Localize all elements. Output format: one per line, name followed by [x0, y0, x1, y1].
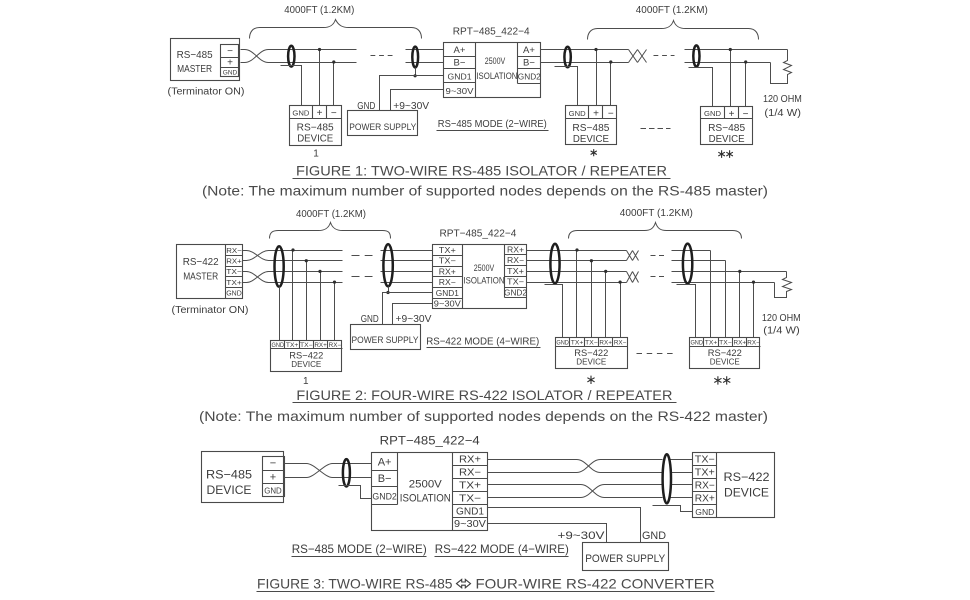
svg-text:DEVICE: DEVICE — [297, 134, 333, 145]
svg-text:9~30V: 9~30V — [454, 519, 486, 530]
svg-text:RS−485: RS−485 — [297, 123, 334, 134]
label 4000FT (1.2KM) Fig1 left — [284, 5, 354, 16]
label RPT-485_422-4 Fig2 — [439, 227, 516, 239]
svg-text:ISOLATION: ISOLATION — [464, 276, 505, 286]
svg-text:RS−422: RS−422 — [183, 256, 219, 268]
svg-text:FIGURE 3: TWO-WIRE RS-485: FIGURE 3: TWO-WIRE RS-485 — [257, 575, 453, 591]
shield tick to GND1 line Fig2 — [386, 287, 389, 295]
svg-text:DEVICE: DEVICE — [576, 358, 606, 367]
RS-485 master box Fig1 — [171, 39, 240, 81]
label (Terminator ON) Fig2 — [172, 305, 249, 316]
tap wire to device ** TX- Fig2 — [725, 261, 727, 338]
svg-text:TX+: TX+ — [571, 341, 584, 347]
svg-text:GND1: GND1 — [448, 72, 472, 82]
svg-text:+: + — [593, 109, 599, 120]
terminating resistor R 120 ohm Fig2 — [775, 272, 792, 298]
RS-485 device 1 box Fig1 — [290, 106, 342, 146]
svg-text:RX−: RX− — [747, 341, 760, 347]
svg-text:RX+: RX+ — [695, 494, 715, 505]
tap wire to device ** RX+ Fig2 — [738, 270, 741, 338]
svg-text:POWER SUPPLY: POWER SUPPLY — [349, 122, 417, 133]
shield ellipse Fig1 cable2 far — [693, 45, 699, 66]
wires resume far segment Fig1 — [685, 50, 788, 63]
svg-text:B−: B− — [454, 58, 466, 69]
twisted pair symbol XX pair1 Fig2 — [627, 251, 639, 261]
svg-text:RPT−485_422−4: RPT−485_422−4 — [439, 227, 516, 239]
RS-422 device box Fig3 — [693, 453, 775, 518]
svg-text:1: 1 — [303, 376, 309, 387]
label RS-485 MODE (2-WIRE) Fig3 — [292, 542, 427, 557]
RS-485 device box Fig3 — [202, 452, 284, 503]
svg-text:(Terminator ON): (Terminator ON) — [168, 87, 245, 98]
repeater left terminal column TX+,TX-,RX+,RX-,GND1,9~30V Fig2 — [433, 245, 463, 309]
svg-text:RS−485 MODE (2−WIRE): RS−485 MODE (2−WIRE) — [292, 542, 427, 556]
shield ellipse Fig2 cable1 repeater side — [383, 244, 392, 286]
shield drain to device * GND — [555, 67, 578, 106]
master terminal strip (minus,plus,GND) Fig1 — [221, 45, 239, 77]
svg-text:−: − — [331, 108, 337, 119]
svg-text:TX−: TX− — [507, 278, 524, 287]
RS-485 device * box Fig1 — [566, 106, 617, 146]
repeater U3 RPT-485_422-4 box Fig3 — [372, 453, 488, 531]
shield ellipse Fig1 cable1 — [288, 46, 294, 67]
svg-text:MASTER: MASTER — [177, 63, 212, 75]
repeater right terminal column RX+,RX-,TX+,TX-,GND1,9~30V Fig3 — [453, 453, 488, 531]
master terminal strip RX-,RX+,TX-,TX+,GND Fig2 — [226, 245, 243, 299]
svg-text:TX−: TX− — [719, 341, 732, 347]
twisted pair TX from master Fig2 — [243, 272, 343, 283]
output pair RX with crossover Fig3 — [488, 460, 663, 473]
svg-text:(1/4 W): (1/4 W) — [764, 108, 801, 119]
svg-text:TX+: TX+ — [439, 246, 456, 255]
label RPT-485_422-4 Fig3 — [380, 433, 480, 447]
svg-text:2500V: 2500V — [474, 263, 495, 273]
svg-text:+9~30V: +9~30V — [393, 100, 429, 112]
svg-text:FIGURE 2: FOUR-WIRE RS-422 ISO: FIGURE 2: FOUR-WIRE RS-422 ISOLATOR / RE… — [296, 387, 672, 403]
tap wire to device * plus — [594, 48, 597, 106]
tap wire to device 1 TX- Fig2 — [305, 259, 308, 340]
label ** below device Fig1 — [718, 150, 733, 158]
svg-text:RX−: RX− — [329, 343, 342, 349]
svg-text:TX−: TX− — [695, 455, 715, 466]
repeater right terminal column A+,B-,GND2 — [518, 43, 542, 84]
brace Fig1 left cable length — [250, 20, 422, 39]
RS-422 device * box Fig2 — [556, 338, 628, 369]
svg-text:DEVICE: DEVICE — [207, 483, 252, 497]
svg-text:RX+: RX+ — [226, 257, 242, 266]
label (Terminator ON) Fig1 — [168, 87, 245, 98]
svg-text:9~30V: 9~30V — [446, 86, 474, 96]
svg-text:GND2: GND2 — [518, 72, 541, 82]
svg-text:GND: GND — [357, 100, 375, 112]
svg-text:GND: GND — [556, 341, 569, 347]
brace Fig2 left cable length — [270, 223, 391, 239]
shield ellipse Fig2 cable1 — [275, 246, 284, 287]
svg-text:ISOLATION: ISOLATION — [476, 71, 517, 81]
svg-text:4000FT (1.2KM): 4000FT (1.2KM) — [296, 209, 366, 220]
RS-422 device ** box Fig2 — [690, 338, 761, 369]
label RS-422 MODE (4-WIRE) Fig2 — [426, 335, 540, 347]
RS-422 device 1 box Fig2 — [271, 341, 343, 372]
GND1 wire to power supply Fig3 — [488, 508, 641, 543]
svg-text:DEVICE: DEVICE — [573, 134, 609, 145]
svg-text:+: + — [729, 109, 735, 120]
svg-text:RPT−485_422−4: RPT−485_422−4 — [453, 26, 530, 38]
svg-text:DEVICE: DEVICE — [710, 358, 740, 367]
label +9~30V psu Fig1 — [393, 100, 429, 112]
svg-text:GND: GND — [264, 487, 282, 496]
label RS-422 MODE (4-WIRE) Fig3 — [435, 542, 569, 557]
svg-text:RPT−485_422−4: RPT−485_422−4 — [380, 433, 480, 447]
svg-text:RX−: RX− — [226, 246, 242, 255]
svg-text:RX+: RX+ — [507, 246, 524, 255]
GND wire from power supply to GND1 — [380, 76, 444, 111]
label 1 below device Fig1 — [313, 148, 319, 159]
twisted pair RX from master Fig2 — [243, 251, 343, 261]
+9~30V wire from power supply Fig2 — [393, 304, 433, 325]
label 2500V ISOLATION Fig3 — [400, 479, 451, 505]
tap wire to device 1 RX+ Fig2 — [318, 270, 321, 341]
svg-text:RX+: RX+ — [314, 343, 327, 349]
shield drain to device 1 GND Fig2 — [279, 287, 281, 341]
svg-text:POWER SUPPLY: POWER SUPPLY — [352, 335, 420, 346]
label 120 OHM Fig1 — [763, 94, 802, 105]
label (1/4 W) Fig2 — [763, 326, 800, 337]
repeater left terminal column A+,B-,GND2 Fig3 — [372, 453, 398, 505]
svg-text:9~30V: 9~30V — [434, 300, 462, 309]
cable break dashes pair1 Fig2 right — [651, 255, 665, 257]
tap wire to device ** minus — [744, 60, 747, 106]
svg-text:B−: B− — [523, 58, 535, 69]
svg-text:1: 1 — [313, 148, 319, 159]
svg-text:RS−422: RS−422 — [724, 470, 770, 484]
tap wire to device * minus — [609, 60, 612, 105]
shield drain to device ** GND Fig2 — [677, 285, 696, 338]
tap wire to device * TX- Fig2 — [590, 259, 593, 337]
cable break dashes pair2 Fig2 right — [651, 276, 665, 278]
svg-text:RS−485: RS−485 — [206, 468, 252, 482]
label GND psu Fig3 — [642, 530, 666, 542]
svg-text:RS−485: RS−485 — [177, 49, 213, 61]
svg-text:TX+: TX+ — [507, 267, 524, 276]
repeater U1 RPT-485_422-4 box Fig1 — [444, 43, 541, 98]
svg-text:FOUR-WIRE RS-422 CONVERTER: FOUR-WIRE RS-422 CONVERTER — [476, 575, 715, 591]
shield drain to device * GND Fig2 — [545, 285, 563, 338]
RS-422 master box Fig2 — [177, 245, 243, 299]
svg-text:A+: A+ — [378, 457, 392, 469]
tap wire to device 1 RX- Fig2 — [333, 281, 336, 341]
shield drain to device GND Fig3 — [653, 506, 693, 512]
svg-text:TX−: TX− — [439, 257, 456, 266]
shield drain to device ** GND — [689, 68, 713, 107]
svg-text:+9~30V: +9~30V — [396, 313, 432, 325]
svg-text:TX−: TX− — [459, 493, 481, 504]
svg-text:FIGURE 1: TWO-WIRE RS-485 ISOL: FIGURE 1: TWO-WIRE RS-485 ISOLATOR / REP… — [296, 163, 667, 179]
tap wire to device ** plus — [729, 48, 732, 107]
GND wire from power supply to GND1 Fig2 — [383, 293, 433, 325]
svg-text:(1/4 W): (1/4 W) — [763, 326, 800, 337]
repeater right terminal column RX+,RX-,TX+,TX-,GND2 Fig2 — [504, 245, 527, 298]
svg-text:4000FT (1.2KM): 4000FT (1.2KM) — [284, 5, 354, 16]
svg-text:GND: GND — [272, 343, 285, 349]
svg-text:−: − — [743, 109, 749, 120]
svg-text:120 OHM: 120 OHM — [763, 94, 802, 105]
svg-text:GND: GND — [642, 530, 666, 542]
repeater U2 RPT-485_422-4 box Fig2 — [433, 245, 527, 309]
svg-text:RS−422 MODE (4−WIRE): RS−422 MODE (4−WIRE) — [435, 542, 569, 556]
RS-485 device ** box Fig1 — [701, 107, 753, 146]
svg-text:GND: GND — [569, 109, 586, 118]
continuation dashes between device * and ** Fig1 — [641, 128, 671, 130]
svg-text:RX−: RX− — [459, 468, 481, 479]
label (1/4 W) Fig1 — [764, 108, 801, 119]
label 4000FT (1.2KM) Fig1 right — [636, 5, 708, 16]
svg-text:RS−485: RS−485 — [708, 123, 745, 134]
wires resume to repeater Fig1 — [406, 50, 444, 63]
output wires RX+,RX-,TX+,TX- Fig2 — [527, 251, 627, 283]
tap wire to device * TX+ Fig2 — [575, 248, 578, 337]
svg-text:TX+: TX+ — [286, 343, 299, 349]
svg-text:GND1: GND1 — [436, 289, 459, 298]
svg-text:TX−: TX− — [300, 343, 313, 349]
svg-text:A+: A+ — [523, 45, 535, 56]
tap wire to device * RX- Fig2 — [619, 281, 622, 338]
shield ellipse Fig2 cable2 — [550, 244, 559, 284]
svg-text:4000FT (1.2KM): 4000FT (1.2KM) — [636, 5, 708, 16]
twisted pair symbol XX pair2 Fig2 — [627, 272, 639, 283]
shield drain to GND2 Fig3 — [339, 486, 372, 499]
svg-text:GND2: GND2 — [504, 288, 527, 297]
svg-text:(Note: The maximum number of s: (Note: The maximum number of supported n… — [199, 408, 768, 424]
svg-text:4000FT (1.2KM): 4000FT (1.2KM) — [620, 208, 693, 219]
svg-text:ISOLATION: ISOLATION — [400, 493, 451, 505]
svg-text:TX+: TX+ — [695, 468, 715, 479]
svg-text:RX−: RX− — [614, 341, 627, 347]
svg-text:+9~30V: +9~30V — [558, 530, 606, 542]
tap wire to device ** TX+ Fig2 — [710, 251, 712, 338]
shield ellipse Fig1 cable1 repeater side — [412, 47, 418, 68]
label 4000FT (1.2KM) Fig2 left — [296, 209, 366, 220]
label +9~30V psu Fig2 — [396, 313, 432, 325]
device terminal strip minus,plus,GND Fig3 — [263, 457, 285, 497]
wires resume far segment Fig2 — [672, 251, 787, 283]
label GND psu Fig1 — [357, 100, 375, 112]
tap wire to device * RX+ Fig2 — [604, 270, 607, 338]
twisted pair from device Fig3 — [284, 464, 372, 478]
label GND psu Fig2 — [361, 313, 379, 325]
svg-text:+: + — [317, 108, 323, 119]
svg-text:A+: A+ — [454, 45, 466, 56]
figure 1 title — [293, 163, 671, 179]
svg-text:RS−485: RS−485 — [572, 123, 609, 134]
cable break dashes pair1 Fig2 — [352, 255, 373, 257]
svg-text:RX+: RX+ — [439, 267, 456, 276]
wires into device Fig3 — [671, 460, 693, 498]
svg-text:+: + — [270, 472, 276, 484]
svg-text:GND2: GND2 — [372, 492, 397, 503]
output pair TX with crossover Fig3 — [488, 485, 663, 498]
figure 2 note — [199, 408, 768, 424]
shield ellipse Fig2 cable2 far — [683, 244, 692, 284]
figure 2 title — [293, 387, 677, 403]
label 2500V ISOLATION Fig1 — [476, 56, 517, 81]
label * below device Fig2 — [587, 376, 594, 384]
label ** below device Fig2 — [714, 376, 730, 384]
power supply box Fig1 — [348, 111, 418, 136]
svg-text:(Terminator ON): (Terminator ON) — [172, 305, 249, 316]
figure 1 note — [202, 183, 768, 199]
label * below device Fig1 — [591, 149, 597, 156]
svg-text:GND1: GND1 — [456, 506, 484, 517]
svg-text:−: − — [270, 458, 276, 470]
power supply box Fig3 — [583, 543, 669, 571]
output wires A+ B- Fig1 — [541, 50, 629, 63]
svg-text:TX−: TX− — [226, 267, 242, 276]
cable break dashes pair2 Fig2 — [352, 276, 373, 278]
label 120 OHM Fig2 — [762, 313, 801, 324]
power supply box Fig2 — [351, 325, 421, 350]
svg-text:RX+: RX+ — [459, 455, 481, 466]
svg-text:TX+: TX+ — [226, 278, 242, 287]
+9~30V wire from power supply — [391, 90, 444, 111]
svg-text:GND: GND — [695, 507, 714, 517]
svg-text:RX−: RX− — [695, 481, 715, 492]
svg-text:DEVICE: DEVICE — [709, 134, 745, 145]
svg-text:(Note: The maximum number of s: (Note: The maximum number of supported n… — [202, 183, 768, 199]
svg-text:POWER SUPPLY: POWER SUPPLY — [585, 553, 666, 565]
svg-text:120 OHM: 120 OHM — [762, 313, 801, 324]
tap wire to device 1 minus terminal — [332, 60, 335, 105]
tap wire to device 1 plus terminal — [318, 48, 321, 106]
svg-text:GND: GND — [704, 109, 721, 118]
label 1 below device Fig2 — [303, 376, 309, 387]
wire twisted pair from master Fig1 — [241, 50, 357, 63]
svg-text:−: − — [608, 109, 614, 120]
svg-text:GND: GND — [226, 289, 242, 298]
shield drain wire to device 1 GND — [281, 66, 302, 106]
svg-text:GND: GND — [690, 341, 703, 347]
label 4000FT (1.2KM) Fig2 right — [620, 208, 693, 219]
svg-text:TX+: TX+ — [705, 341, 718, 347]
shield tick to GND1 line — [414, 68, 417, 78]
svg-text:TX−: TX− — [585, 341, 598, 347]
label +9~30V psu Fig3 — [558, 530, 606, 542]
svg-text:MASTER: MASTER — [183, 271, 218, 283]
device terminal strip TX-,TX+,RX-,RX+,GND Fig3 — [693, 453, 717, 518]
cable break dashes Fig1 cable2 — [654, 55, 675, 57]
svg-text:TX+: TX+ — [459, 481, 481, 492]
label RS-485 MODE (2-WIRE) Fig1 — [437, 118, 549, 131]
svg-text:GND: GND — [361, 313, 379, 325]
svg-text:GND: GND — [223, 70, 238, 77]
svg-text:GND: GND — [292, 108, 309, 117]
svg-text:DEVICE: DEVICE — [291, 360, 321, 369]
shield ellipse Fig3 cable1 — [343, 459, 350, 486]
svg-text:RX+: RX+ — [734, 341, 747, 347]
brace Fig2 right cable length — [569, 223, 742, 239]
svg-text:DEVICE: DEVICE — [724, 486, 769, 500]
svg-text:RX−: RX− — [507, 256, 524, 265]
svg-text:2500V: 2500V — [485, 56, 506, 66]
9~30V wire to power supply Fig3 — [488, 524, 607, 543]
terminating resistor R 120 ohm Fig1 — [771, 50, 792, 84]
svg-text:RX−: RX− — [439, 278, 456, 287]
wires resume to repeater Fig2 — [381, 251, 433, 283]
repeater left terminal column A+,B-,GND1,9~30V — [444, 43, 476, 98]
svg-text:RX+: RX+ — [599, 341, 612, 347]
continuation dashes between device * and ** Fig2 — [637, 353, 674, 355]
twisted pair symbol XX Fig1 — [629, 50, 647, 63]
label RPT-485_422-4 Fig1 — [453, 26, 530, 38]
svg-text:−: − — [227, 46, 233, 57]
tap wire to device ** RX- Fig2 — [752, 281, 755, 338]
shield ellipse Fig3 cable2 — [663, 454, 671, 503]
label 2500V ISOLATION Fig2 — [464, 263, 505, 286]
svg-text:+: + — [227, 58, 233, 69]
svg-text:RS−422 MODE (4−WIRE): RS−422 MODE (4−WIRE) — [426, 335, 539, 347]
svg-text:B−: B− — [378, 473, 392, 485]
svg-text:RS−485 MODE (2−WIRE): RS−485 MODE (2−WIRE) — [438, 118, 547, 130]
shield ellipse Fig1 cable2 — [564, 47, 570, 68]
figure 3 title — [257, 575, 715, 591]
cable break dashes Fig1 cable1 — [371, 55, 393, 57]
tap wire to device 1 TX+ Fig2 — [291, 248, 294, 340]
brace Fig1 right cable length — [588, 21, 759, 40]
svg-text:2500V: 2500V — [409, 479, 443, 491]
